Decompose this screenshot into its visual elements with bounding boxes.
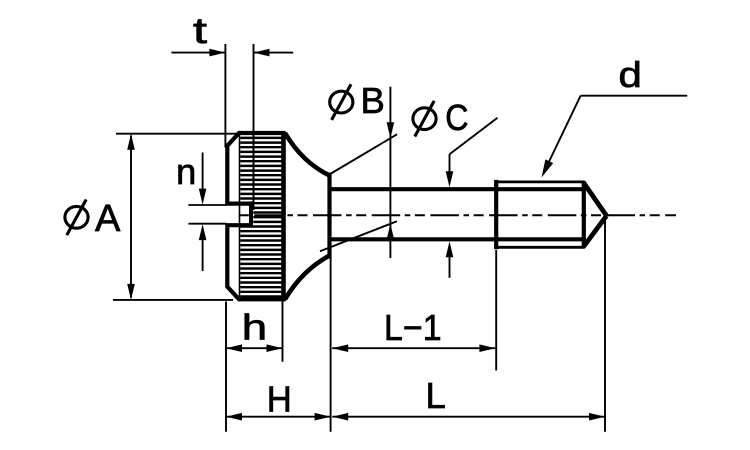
dimension H line bbox=[226, 416, 331, 418]
thread end face bbox=[582, 185, 586, 246]
neck extension line bbox=[330, 259, 332, 432]
svg-text:L: L bbox=[426, 375, 446, 416]
svg-text:h: h bbox=[242, 307, 267, 348]
dimension L-1 line bbox=[332, 347, 495, 349]
dimension t extension line (slot bottom) bbox=[253, 44, 255, 210]
d leader diagonal bbox=[545, 96, 581, 170]
svg-text:A: A bbox=[95, 198, 121, 240]
phiB oblique extension bottom bbox=[320, 221, 397, 251]
label phiB phi symbol bbox=[330, 84, 353, 120]
phiB oblique extension top bbox=[331, 134, 397, 173]
tip extension line bbox=[604, 219, 606, 432]
dimension phiA extension line bottom bbox=[113, 299, 233, 301]
knurling (ladder hatch) bbox=[240, 138, 282, 297]
dimension phiA extension line top bbox=[116, 133, 237, 135]
screwdriver slot bottom edge bbox=[225, 223, 253, 227]
svg-text:B: B bbox=[361, 80, 385, 121]
thread major diameter bottom bbox=[496, 246, 585, 249]
screwdriver slot top edge bbox=[225, 202, 253, 206]
phiC arrow from below bbox=[449, 255, 451, 278]
svg-text:C: C bbox=[445, 98, 468, 138]
head-to-shaft concave curve (top) bbox=[285, 133, 330, 176]
phiC arrow to shaft top bbox=[449, 154, 451, 175]
head-to-shaft concave curve (bottom) bbox=[285, 256, 330, 300]
shaft top edge bbox=[331, 187, 584, 191]
dimension n extension line (slot top) bbox=[188, 204, 226, 206]
svg-text:H: H bbox=[267, 379, 292, 420]
dimension t line left tail bbox=[171, 52, 225, 54]
screwdriver slot end face bbox=[249, 201, 253, 227]
knurled head top edge and chamfer bbox=[227, 133, 285, 202]
phiC oblique leader bbox=[450, 118, 498, 154]
dimension n arrow top bbox=[202, 153, 204, 191]
dimension n extension line (slot bottom) bbox=[188, 223, 226, 225]
thread start face bbox=[494, 180, 498, 249]
knurl chamfer boundary line bbox=[239, 135, 241, 297]
thread major diameter top bbox=[496, 180, 585, 183]
phiB dimension line bbox=[389, 87, 391, 258]
dimension L line bbox=[332, 416, 605, 418]
knurl right edge bbox=[281, 131, 286, 301]
cone point bottom bbox=[583, 216, 606, 247]
svg-text:L−1: L−1 bbox=[384, 308, 442, 348]
label phiC phi symbol bbox=[413, 101, 436, 137]
dimension phiA line bbox=[130, 136, 132, 298]
knurled head bottom edge and chamfer bbox=[227, 227, 285, 299]
h extension line (knurl end) bbox=[282, 302, 284, 362]
svg-text:t: t bbox=[193, 11, 207, 52]
label phiA phi symbol bbox=[65, 200, 88, 236]
cone point top bbox=[583, 182, 606, 216]
shaft bottom edge bbox=[331, 237, 584, 241]
dimension t line right tail bbox=[254, 52, 294, 54]
dimension t extension line (head face) bbox=[224, 44, 226, 148]
svg-text:n: n bbox=[176, 151, 196, 192]
dimension h line bbox=[226, 347, 283, 349]
d leader horizontal bbox=[581, 95, 688, 97]
centerline bbox=[239, 214, 676, 216]
neck end face bbox=[327, 173, 331, 259]
thread-start extension line bbox=[495, 250, 497, 371]
svg-text:d: d bbox=[619, 54, 642, 95]
left extension line below head bbox=[225, 302, 227, 432]
dimension n arrow bottom bbox=[202, 239, 204, 272]
